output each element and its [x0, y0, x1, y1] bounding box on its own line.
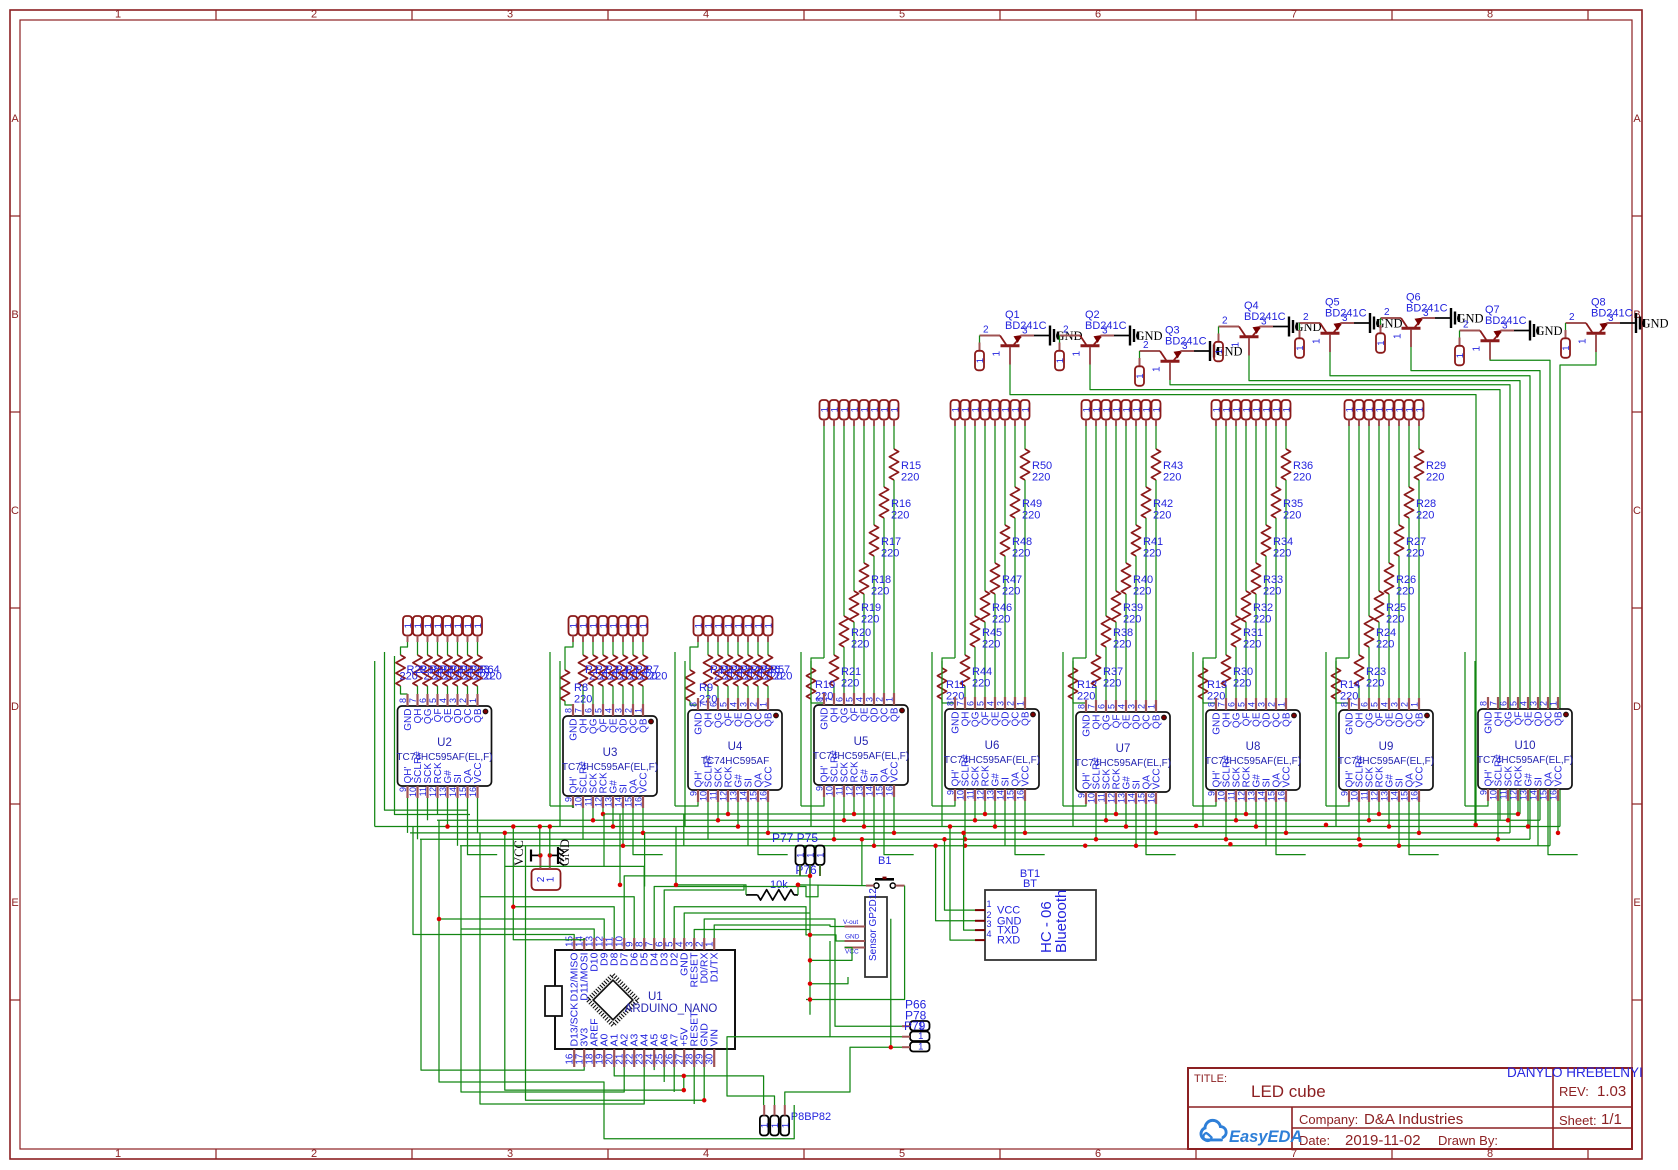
transistor Q8 (BD241C) [1566, 322, 1587, 324]
svg-text:14: 14 [614, 797, 624, 807]
U1 pin 23 (A4) [643, 1049, 645, 1067]
svg-text:1: 1 [816, 853, 827, 858]
svg-text:1: 1 [780, 1123, 791, 1128]
svg-text:10: 10 [574, 797, 584, 807]
U3 pin 1 (QB) [642, 704, 644, 716]
transistor Q7 (BD241C) [1460, 330, 1481, 332]
U4 pin 15 (QA) [757, 790, 759, 802]
U8 pin 1 (QB) [1285, 698, 1287, 710]
U8 pin 14 (SI) [1265, 790, 1267, 802]
connector header 1-pin above U3 col1 [569, 616, 578, 636]
U9 pin 13 (G#) [1388, 790, 1390, 802]
svg-text:R34: R34 [1273, 536, 1293, 548]
ground symbol at Q1 [1034, 335, 1050, 337]
svg-text:1: 1 [1393, 333, 1404, 339]
svg-text:16: 16 [1277, 791, 1287, 801]
svg-text:10: 10 [825, 786, 835, 796]
wire [1146, 804, 1176, 855]
svg-text:6: 6 [1227, 702, 1237, 707]
U1 pin 2 (D0/RX) [703, 938, 705, 950]
U4 pin 12 (RCK) [727, 790, 729, 802]
connector header 1-pin above U2 col6 [453, 616, 462, 636]
resistor R47 220 [994, 426, 996, 563]
svg-text:16: 16 [634, 797, 644, 807]
svg-text:1: 1 [705, 941, 716, 947]
svg-text:VCC: VCC [1554, 765, 1565, 786]
wire chain [1464, 652, 1466, 806]
U2 pin 2 (QC) [466, 694, 468, 706]
U7 pin 13 (G#) [1125, 792, 1127, 804]
svg-text:2: 2 [311, 9, 317, 21]
U4 pin 6 (QG) [717, 698, 719, 710]
svg-text:10: 10 [956, 790, 966, 800]
svg-text:R29: R29 [1426, 460, 1446, 472]
U10 pin 6 (QG) [1507, 697, 1509, 709]
U2 pin 13 (G#) [446, 786, 448, 798]
wire [592, 808, 594, 820]
IC U6 body [945, 709, 1039, 789]
wire chain [684, 661, 686, 827]
svg-text:1: 1 [1578, 338, 1589, 344]
svg-text:REV:: REV: [1559, 1084, 1589, 1099]
U8 pin 13 (G#) [1255, 790, 1257, 802]
svg-text:220: 220 [774, 671, 792, 683]
resistor R27 220 [1398, 426, 1400, 525]
svg-text:GND: GND [558, 839, 572, 866]
wire [664, 885, 744, 938]
svg-text:TC74HC595AF(EL,F): TC74HC595AF(EL,F) [813, 751, 909, 762]
wire [421, 839, 584, 1070]
svg-text:2: 2 [624, 708, 634, 713]
svg-text:220: 220 [851, 639, 869, 651]
svg-text:QB: QB [1021, 711, 1032, 726]
svg-text:220: 220 [841, 678, 859, 690]
wire [505, 833, 684, 1090]
U2 pin 15 (QA) [466, 786, 468, 798]
svg-text:15: 15 [749, 791, 759, 801]
wire chain [931, 652, 933, 806]
wire [1398, 802, 1400, 846]
svg-text:TC74HC595AF(EL,F): TC74HC595AF(EL,F) [562, 762, 658, 773]
svg-text:RXD: RXD [997, 935, 1020, 947]
svg-text:2: 2 [875, 697, 885, 702]
connector header 1-pin above U6 col5 [991, 400, 1000, 420]
U9 pin 12 (RCK) [1378, 790, 1380, 802]
wire [1527, 801, 1529, 827]
U4 pin 14 (SI) [747, 790, 749, 802]
connector header 1-pin above U7 col1 [1082, 400, 1091, 420]
svg-text:1: 1 [1231, 342, 1242, 348]
svg-text:1: 1 [1376, 340, 1387, 345]
U6 pin 5 (QF) [984, 697, 986, 709]
resistor R17 220 [873, 426, 875, 525]
svg-text:R46: R46 [992, 602, 1012, 614]
svg-text:8: 8 [1207, 702, 1217, 707]
wire [1285, 802, 1287, 833]
ground symbol at Q8 [1620, 322, 1636, 324]
U3 pin 11 (SCK) [592, 796, 594, 808]
svg-text:13: 13 [1117, 793, 1127, 803]
ground symbol at Q3 [1194, 350, 1210, 352]
U10 pin 16 (VCC) [1557, 789, 1559, 801]
wire chain [1072, 661, 1074, 827]
svg-text:D: D [1633, 701, 1641, 713]
U3 pin 7 (QH) [582, 704, 584, 716]
svg-text:9: 9 [815, 786, 825, 791]
svg-text:1: 1 [1152, 366, 1163, 372]
svg-text:11: 11 [835, 786, 845, 795]
wire [1497, 801, 1499, 839]
wire [704, 919, 902, 1026]
svg-text:QB: QB [473, 708, 484, 723]
svg-text:10: 10 [1350, 791, 1360, 801]
U8 pin 10 (SCLR#) [1225, 790, 1227, 802]
wire chain [385, 652, 468, 810]
connector header 1-pin above U2 col1 [403, 616, 412, 636]
wire [810, 948, 852, 961]
svg-text:1: 1 [1561, 345, 1572, 350]
svg-text:R27: R27 [1406, 536, 1426, 548]
svg-text:15: 15 [875, 786, 885, 796]
wire [843, 797, 845, 820]
wire [477, 798, 479, 833]
svg-text:LED cube: LED cube [1251, 1082, 1326, 1101]
svg-text:13: 13 [729, 791, 739, 801]
wire [439, 820, 794, 1138]
U5 pin 2 (QC) [883, 693, 885, 705]
U3 pin 6 (QG) [592, 704, 594, 716]
svg-text:12: 12 [1509, 790, 1519, 800]
wire chain [1335, 661, 1337, 827]
svg-text:7: 7 [1087, 704, 1097, 709]
svg-text:R41: R41 [1143, 536, 1163, 548]
svg-text:2: 2 [1539, 701, 1549, 706]
wire [798, 884, 866, 887]
resistor R29 220 [1418, 426, 1420, 449]
svg-text:R42: R42 [1153, 498, 1173, 510]
svg-text:220: 220 [871, 586, 889, 598]
wire [994, 801, 996, 827]
svg-text:3: 3 [865, 697, 875, 702]
U5 pin 9 (QH') [823, 785, 825, 797]
svg-text:220: 220 [1416, 510, 1434, 522]
wire [1135, 804, 1137, 846]
resistor R60 220 [437, 642, 439, 655]
U4 pin 1 (QB) [767, 698, 769, 710]
svg-text:5: 5 [976, 701, 986, 706]
U5 pin 1 (QB) [893, 693, 895, 705]
connector header 1-pin above U4 col4 [724, 616, 733, 636]
wire [644, 833, 646, 887]
wire [603, 814, 605, 866]
svg-text:4: 4 [729, 702, 739, 707]
svg-text:TC74HC595AF(EL,F): TC74HC595AF(EL,F) [1205, 756, 1301, 767]
connector header 1-pin above U5 col6 [870, 400, 879, 420]
wire [550, 806, 573, 808]
svg-text:11: 11 [1097, 793, 1107, 802]
resistor R4 220 [612, 642, 614, 655]
svg-text:R13: R13 [1207, 679, 1227, 691]
U6 pin 10 (SCLR#) [964, 789, 966, 801]
svg-text:16: 16 [1016, 790, 1026, 800]
wire [675, 802, 698, 806]
svg-text:V-out: V-out [843, 919, 858, 926]
svg-text:15: 15 [1006, 790, 1016, 800]
connector header 1-pin above U8 col5 [1252, 400, 1261, 420]
svg-text:2: 2 [1143, 340, 1149, 351]
wire [984, 801, 986, 814]
wire chain [1202, 661, 1204, 827]
wire [1015, 801, 1045, 855]
U6 pin 4 (QE) [994, 697, 996, 709]
wire [714, 925, 844, 938]
svg-text:TC74HC595AF(EL,F): TC74HC595AF(EL,F) [1477, 755, 1573, 766]
U1 pin 27 (+5V) [683, 1049, 685, 1067]
connector header 1-pin above U2 col5 [443, 616, 452, 636]
U8 pin 9 (QH') [1215, 790, 1217, 802]
resistor R46 220 [984, 426, 986, 591]
svg-text:5: 5 [1237, 702, 1247, 707]
svg-text:EasyEDA: EasyEDA [1229, 1128, 1302, 1146]
U3 pin 12 (RCK) [602, 796, 604, 808]
U10 pin 15 (QA) [1547, 789, 1549, 801]
U7 pin 16 (VCC) [1155, 792, 1157, 804]
wire [1465, 801, 1488, 806]
U10 pin 9 (QH') [1487, 789, 1489, 801]
svg-text:14: 14 [1257, 791, 1267, 801]
svg-text:10: 10 [699, 791, 709, 801]
connector header P80 [760, 1116, 769, 1136]
wire [582, 808, 584, 839]
svg-text:R21: R21 [841, 666, 861, 678]
connector header 1-pin above U9 col3 [1365, 400, 1374, 420]
connector header 1-pin above U6 col1 [951, 400, 960, 420]
connector header 1-pin above U2 col7 [463, 616, 472, 636]
U7 pin 9 (QH') [1085, 792, 1087, 804]
wire Q3 base to bus [1170, 380, 1510, 833]
svg-text:R24: R24 [1376, 627, 1396, 639]
svg-text:QB: QB [1415, 712, 1426, 727]
U1 pin 13 (D10) [593, 938, 595, 950]
svg-text:R31: R31 [1243, 627, 1263, 639]
resistor R54 220 [737, 642, 739, 655]
U1 pin 14 (D11/MOSI) [583, 938, 585, 950]
svg-text:14: 14 [739, 791, 749, 801]
svg-text:220: 220 [891, 510, 909, 522]
svg-text:8: 8 [689, 702, 699, 707]
IC U7 body [1076, 712, 1170, 792]
svg-text:220: 220 [1133, 586, 1151, 598]
svg-text:9: 9 [564, 797, 574, 802]
svg-text:220: 220 [1002, 586, 1020, 598]
wire chain [1325, 652, 1327, 806]
U3 pin 5 (QF) [602, 704, 604, 716]
connector header 1-pin above U9 col5 [1385, 400, 1394, 420]
svg-text:13: 13 [438, 787, 448, 797]
connector header 1-pin above U4 col8 [764, 616, 773, 636]
wire [893, 797, 895, 833]
U9 pin 3 (QD) [1398, 698, 1400, 710]
U5 pin 14 (SI) [873, 785, 875, 797]
svg-text:1: 1 [1410, 702, 1420, 707]
arduino USB connector [545, 986, 562, 1016]
svg-text:1: 1 [1549, 701, 1559, 706]
svg-text:2: 2 [311, 1148, 317, 1160]
svg-text:1: 1 [975, 358, 986, 363]
U1 pin 20 (A1) [613, 1049, 615, 1067]
U4 pin 3 (QD) [747, 698, 749, 710]
connector header 1-pin above U7 col4 [1112, 400, 1121, 420]
svg-text:1: 1 [1282, 407, 1293, 412]
svg-text:9: 9 [1340, 791, 1350, 796]
wire [619, 814, 621, 885]
svg-text:14: 14 [1127, 793, 1137, 803]
svg-text:14: 14 [865, 786, 875, 796]
transistor Q3 (BD241C) [1140, 350, 1161, 352]
wire [693, 1067, 695, 1104]
svg-text:GND: GND [1536, 324, 1563, 338]
wire [663, 1067, 665, 1082]
svg-text:Sensor GP2D12: Sensor GP2D12 [868, 888, 879, 961]
connector header 1-pin above U8 col7 [1272, 400, 1281, 420]
svg-text:4: 4 [438, 698, 448, 703]
resistor R31 220 [1235, 426, 1237, 616]
resistor R28 220 [1408, 426, 1410, 487]
wire [758, 802, 788, 855]
svg-text:1: 1 [992, 351, 1003, 357]
connector header 1-pin above U3 col6 [619, 616, 628, 636]
wire [863, 797, 865, 827]
transistor Q4 (BD241C) [1219, 326, 1240, 328]
svg-text:220: 220 [1123, 614, 1141, 626]
wire Q2 base to bus [1090, 365, 1500, 821]
svg-text:6: 6 [835, 697, 845, 702]
wire [1388, 802, 1390, 827]
svg-text:R48: R48 [1012, 536, 1032, 548]
wire [1024, 801, 1026, 833]
U6 pin 16 (VCC) [1024, 789, 1026, 801]
resistor R56 220 [757, 642, 759, 655]
U2 pin 16 (VCC) [476, 786, 478, 798]
svg-text:U6: U6 [985, 740, 1000, 752]
svg-text:11: 11 [966, 790, 976, 799]
svg-text:11: 11 [1360, 791, 1370, 800]
svg-text:220: 220 [1366, 678, 1384, 690]
connector header 1-pin above U3 col8 [639, 616, 648, 636]
svg-text:220: 220 [992, 614, 1010, 626]
connector header 1-pin above U5 col4 [850, 400, 859, 420]
wire [964, 833, 975, 930]
wire [833, 797, 835, 839]
svg-text:220: 220 [1012, 548, 1030, 560]
resistor R8 220 [565, 642, 573, 670]
svg-text:R14: R14 [1340, 679, 1360, 691]
svg-text:1: 1 [634, 708, 644, 713]
U3 pin 2 (QC) [632, 704, 634, 716]
U5 pin 4 (QE) [863, 693, 865, 705]
svg-text:1: 1 [1021, 407, 1032, 412]
svg-text:U5: U5 [854, 736, 869, 748]
BT1 pin 2 GND [975, 920, 985, 922]
svg-text:2: 2 [1063, 325, 1069, 336]
svg-text:5: 5 [899, 9, 905, 21]
U8 pin 7 (QH) [1225, 698, 1227, 710]
svg-text:1.03: 1.03 [1597, 1083, 1626, 1100]
svg-text:3: 3 [507, 1148, 513, 1160]
U1 pin 29 (GND) [703, 1049, 705, 1067]
sensor pin V-out [845, 926, 866, 928]
wire [861, 839, 863, 885]
U4 pin 11 (SCK) [717, 790, 719, 802]
ground symbol at Q6 [1435, 317, 1451, 319]
U3 pin 10 (SCLR#) [582, 796, 584, 808]
svg-text:U10: U10 [1514, 740, 1535, 752]
svg-text:16: 16 [885, 786, 895, 796]
svg-text:30: 30 [705, 1053, 716, 1065]
wire [727, 802, 729, 814]
svg-text:1: 1 [468, 698, 478, 703]
U4 pin 16 (VCC) [767, 790, 769, 802]
svg-text:VCC: VCC [1152, 768, 1163, 789]
layer header P at Q6 collector [1380, 318, 1382, 325]
U7 pin 8 (GND) [1085, 700, 1087, 712]
wire [439, 919, 604, 938]
svg-text:R19: R19 [861, 602, 881, 614]
wire [505, 866, 644, 938]
wire [797, 885, 799, 895]
svg-text:1: 1 [1072, 351, 1083, 357]
svg-text:VCC: VCC [890, 761, 901, 782]
svg-text:7: 7 [825, 697, 835, 702]
U3 pin 14 (SI) [622, 796, 624, 808]
svg-text:R17: R17 [881, 536, 901, 548]
U2 pin 14 (SI) [456, 786, 458, 798]
svg-text:220: 220 [861, 614, 879, 626]
svg-text:VCC: VCC [512, 840, 526, 866]
connector header 1-pin above U8 col6 [1262, 400, 1271, 420]
svg-text:2: 2 [1137, 704, 1147, 709]
U10 pin 14 (SI) [1537, 789, 1539, 801]
layer header P at Q3 collector [1139, 351, 1141, 358]
U1 pin 1 (D1/TX) [713, 938, 715, 950]
svg-text:220: 220 [972, 678, 990, 690]
U10 pin 12 (RCK) [1517, 789, 1519, 801]
svg-text:220: 220 [1406, 548, 1424, 560]
U8 pin 11 (SCK) [1235, 790, 1237, 802]
wire [819, 865, 821, 876]
svg-text:7: 7 [1291, 9, 1297, 21]
BT1 pin 1 VCC [975, 909, 985, 911]
connector header 1-pin above U2 col8 [473, 616, 482, 636]
resistor R49 220 [1014, 426, 1016, 487]
connector header 1-pin above U4 col3 [714, 616, 723, 636]
connector header 1-pin above U4 col6 [744, 616, 753, 636]
U9 pin 10 (SCLR#) [1358, 790, 1360, 802]
svg-text:12: 12 [845, 786, 855, 796]
svg-text:2: 2 [1569, 312, 1575, 323]
wire [1276, 802, 1306, 855]
svg-text:220: 220 [1233, 678, 1251, 690]
wire bus [410, 832, 1510, 834]
resistor R2 220 [592, 642, 594, 655]
svg-text:3: 3 [1529, 701, 1539, 706]
U3 pin 4 (QE) [612, 704, 614, 716]
wire [932, 801, 955, 806]
connector header 1-pin above U6 col7 [1011, 400, 1020, 420]
svg-text:7: 7 [956, 701, 966, 706]
svg-text:4: 4 [1380, 702, 1390, 707]
svg-text:6: 6 [1095, 1148, 1101, 1160]
